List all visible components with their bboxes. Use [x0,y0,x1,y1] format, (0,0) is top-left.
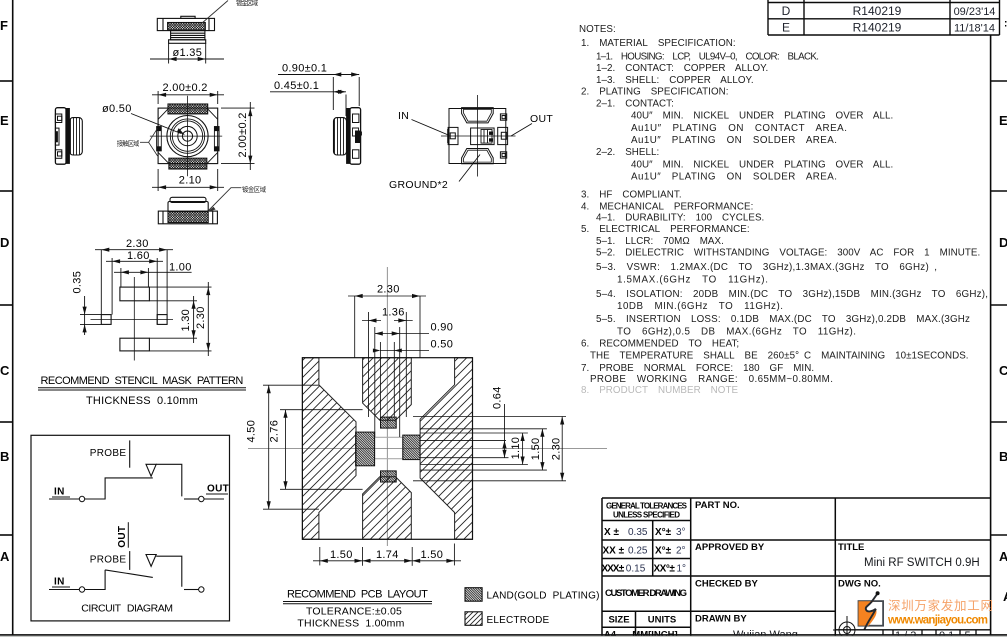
svg-text:RECOMMEND STENCIL MASK PATTERN: RECOMMEND STENCIL MASK PATTERN [41,375,244,387]
svg-text:A: A [999,549,1007,564]
svg-text:E: E [0,113,9,128]
svg-text:TO 6GHz),0.5 DB MAX.(6GHz: TO 6GHz),0.5 DB MAX.(6GHz TO 11GHz). [617,327,856,338]
svg-text:0.64: 0.64 [492,386,504,409]
node IN terminal (bottom) [79,587,84,592]
svg-text:2.00±0.2: 2.00±0.2 [237,112,249,157]
svg-text:5–2. DIELECTRIC WITHSTANDING: 5–2. DIELECTRIC WITHSTANDING VOLTAGE: 30… [596,248,980,259]
centerlines [150,96,222,176]
bottom partial row of title block (cut off) [835,630,990,637]
svg-text:4. MECHANICAL PERFORMANCE:: 4. MECHANICAL PERFORMANCE: [581,202,753,213]
svg-text:0.50: 0.50 [431,338,454,350]
svg-text:0.35: 0.35 [628,527,648,538]
svg-text:1.5MAX.(6GHz TO 11GHz).: 1.5MAX.(6GHz TO 11GHz). [617,275,768,286]
svg-text:2.30: 2.30 [195,306,207,329]
svg-text:40U″ MIN. NICKEL UNDER PLA: 40U″ MIN. NICKEL UNDER PLATING OVER ALL. [631,160,893,171]
svg-text:10DB MIN.(6GHz TO 11GHz).: 10DB MIN.(6GHz TO 11GHz). [617,301,783,312]
svg-text:1.10: 1.10 [510,437,522,460]
svg-text:11/18'14: 11/18'14 [954,23,995,35]
svg-text:2. PLATING SPECIFICATION:: 2. PLATING SPECIFICATION: [581,87,729,98]
wire to OUT node (bottom) [184,589,199,591]
svg-text:镀金区域: 镀金区域 [242,184,267,193]
svg-text:5–5. INSERTION LOSS: 0.1DB: 5–5. INSERTION LOSS: 0.1DB MAX.(DC TO 3G… [596,314,970,325]
svg-text:5–3. VSWR: 1.2MAX.(DC TO 3: 5–3. VSWR: 1.2MAX.(DC TO 3GHz),1.3MAX.(3… [596,262,937,273]
svg-text:PROBE WORKING RANGE: 0.65MM: PROBE WORKING RANGE: 0.65MM~0.80MM. [590,374,833,385]
view: connector bottom view (terminals) [389,95,553,191]
wire IN riser (bottom) [85,570,105,590]
dim 0.90 [270,75,359,117]
svg-text:B: B [0,449,9,464]
logo [859,591,994,630]
svg-text:A: A [0,549,10,564]
svg-text:深圳万家发加工网: 深圳万家发加工网 [888,598,993,613]
dim 2.30 top [95,250,173,315]
svg-text:1°: 1° [677,564,687,575]
svg-text:APPROVED BY: APPROVED BY [695,542,765,553]
dim d1.35 [150,43,224,63]
svg-text:DRAWN BY: DRAWN BY [695,614,747,625]
svg-text:ELECTRODE: ELECTRODE [487,615,550,626]
svg-text:THE TEMPERATURE SHALL BE 2: THE TEMPERATURE SHALL BE 260±5° C MAINTA… [590,351,969,362]
switch arm S2 (open) [105,570,153,578]
svg-text:3°: 3° [676,527,686,538]
svg-text:7. PROBE NORMAL FORCE: 180: 7. PROBE NORMAL FORCE: 180 GF MIN. [581,363,814,374]
registration crosshair [833,616,861,637]
svg-text:OUT: OUT [207,484,229,495]
dim 2.30 right [149,282,211,356]
svg-text:D: D [782,4,791,18]
dim 2.10 bottom [152,169,224,191]
dim 0.35 [80,296,101,335]
svg-text:1–1. HOUSING: LCP, UL94V–0,: 1–1. HOUSING: LCP, UL94V–0, COLOR: BLACK… [596,51,819,62]
svg-text:C: C [999,363,1007,378]
svg-text:RECOMMEND PCB LAYOUT: RECOMMEND PCB LAYOUT [287,589,428,601]
svg-text:Au1U″ PLATING ON SOLDER AR: Au1U″ PLATING ON SOLDER AREA. [631,135,837,146]
svg-text:Au1U″ PLATING ON CONTACT A: Au1U″ PLATING ON CONTACT AREA. [631,123,847,134]
svg-text:R140219: R140219 [853,21,902,35]
svg-text:R140219: R140219 [853,4,902,18]
svg-text:1.30: 1.30 [180,309,192,332]
svg-text:2–2. SHELL:: 2–2. SHELL: [596,147,659,158]
svg-text:Au1U″ PLATING ON SOLDER AR: Au1U″ PLATING ON SOLDER AREA. [631,172,837,183]
dim 2.00 right [221,102,255,170]
svg-text:THICKNESS 0.10mm: THICKNESS 0.10mm [86,395,198,407]
dim 1.60 [106,258,163,324]
wire IN lead (top) [49,498,79,500]
svg-text:www.wanjiayou.com: www.wanjiayou.com [887,615,988,627]
PCB layout [246,267,608,630]
svg-text:09/23'14: 09/23'14 [954,6,996,18]
svg-text:ø0.50: ø0.50 [102,103,132,115]
center contact [471,128,495,145]
circuit diagram border box [31,435,230,621]
svg-text:1.50: 1.50 [330,549,353,561]
svg-text:0.15: 0.15 [626,564,646,575]
svg-text:GROUND*2: GROUND*2 [389,179,448,191]
svg-text:A: A [1003,589,1007,604]
view: connector top side view [150,0,259,64]
svg-text:CIRCUIT DIAGRAM: CIRCUIT DIAGRAM [81,603,173,615]
left dims [263,385,363,509]
svg-text:CUSTOMER DRAWING: CUSTOMER DRAWING [605,588,687,599]
switch contact triangle S2 [146,555,156,567]
svg-text:2°: 2° [676,546,686,557]
svg-text:2.30: 2.30 [550,438,562,461]
svg-text:XXX: XXX [602,564,620,575]
bottom dims [313,544,461,566]
svg-text:E: E [782,21,790,35]
corner squares [500,114,506,120]
view: connector bottom side view [158,184,266,223]
svg-text:DWG NO.: DWG NO. [838,579,881,590]
svg-text:C: C [0,363,10,378]
svg-text:OUT: OUT [117,526,128,548]
svg-text:5–4. ISOLATION: 20DB MIN.(D: 5–4. ISOLATION: 20DB MIN.(DC TO 3GHz),15… [596,289,988,300]
svg-text:E: E [999,113,1007,128]
svg-text:2–1. CONTACT:: 2–1. CONTACT: [596,99,674,110]
svg-text:40U″ MIN. NICKEL UNDER PLA: 40U″ MIN. NICKEL UNDER PLATING OVER ALL. [631,111,893,122]
svg-text:6. RECOMMENDED TO HEAT;: 6. RECOMMENDED TO HEAT; [581,339,739,350]
svg-text:B: B [999,449,1007,464]
svg-text:1.36: 1.36 [382,307,405,319]
dim 1.30 [149,296,197,343]
svg-text:PROBE: PROBE [90,555,127,566]
view: connector right side view [270,63,362,165]
svg-text:OUT: OUT [530,113,553,125]
svg-text:8. PRODUCT NUMBER NOTE: 8. PRODUCT NUMBER NOTE [581,385,738,396]
svg-text:1. MATERIAL SPECIFICATION:: 1. MATERIAL SPECIFICATION: [581,38,736,49]
revision table [762,0,1005,35]
svg-text:D: D [0,235,9,250]
svg-text:4.50: 4.50 [246,420,258,443]
ground pad bottom [462,149,494,164]
svg-text:1.60: 1.60 [127,250,150,262]
bottom scan strip [0,636,1007,637]
svg-text:IN: IN [54,487,65,498]
land pads [356,417,420,482]
svg-text:LAND(GOLD PLATING): LAND(GOLD PLATING) [487,591,600,602]
wire IN lead (bottom) [49,589,79,591]
svg-text:PROBE: PROBE [90,448,127,459]
svg-text:1–2. CONTACT: COPPER ALLOY.: 1–2. CONTACT: COPPER ALLOY. [596,63,768,74]
electrode regions [302,358,472,540]
svg-text:0.45±0.1: 0.45±0.1 [274,80,319,92]
svg-text:Mini RF SWITCH 0.9H: Mini RF SWITCH 0.9H [864,557,980,569]
svg-text:5–1. LLCR: 70MΩ MAX.: 5–1. LLCR: 70MΩ MAX. [596,236,724,247]
svg-text:1.00: 1.00 [169,262,192,274]
svg-text:±: ± [619,564,625,575]
outer square [302,358,472,540]
svg-text:PART NO.: PART NO. [695,500,740,511]
node OUT terminal (top) [199,496,204,501]
stencil mask pattern [38,238,246,407]
node IN terminal (top) [79,496,84,501]
dim 2.00 top [152,91,224,104]
centerlines [248,267,607,546]
svg-text:SIZE: SIZE [608,615,629,626]
svg-text:CHECKED BY: CHECKED BY [695,579,758,590]
svg-text:2.76: 2.76 [268,420,280,443]
svg-text:XX ±: XX ± [603,546,625,557]
svg-text:4–1. DURABILITY: 100 CYCLES: 4–1. DURABILITY: 100 CYCLES. [596,213,764,224]
wire to OUT node (top) [184,498,199,500]
svg-text:1–3. SHELL: COPPER ALLOY.: 1–3. SHELL: COPPER ALLOY. [596,75,754,86]
svg-text:X ±: X ± [604,527,619,538]
probe actuator line S1 [129,440,131,467]
svg-text:0.25: 0.25 [628,546,648,557]
svg-text:5. ELECTRICAL PERFORMANCE:: 5. ELECTRICAL PERFORMANCE: [581,224,750,235]
svg-text:接触区域: 接触区域 [117,139,140,148]
svg-text:X°±: X°± [655,527,672,538]
svg-text:0.90: 0.90 [431,322,454,334]
dim 1.00 [114,268,192,287]
title block [602,498,991,637]
notes [579,24,988,396]
central rect [375,437,403,458]
svg-text:IN: IN [398,110,409,122]
svg-text:IN: IN [54,577,65,588]
svg-text:1.50: 1.50 [421,549,444,561]
circuit diagram [31,435,230,621]
OUT terminal [498,127,508,144]
svg-text:2.00±0.2: 2.00±0.2 [163,82,208,94]
switch contact triangle S1 [146,464,156,476]
probe actuator line S2 [129,551,131,570]
node OUT terminal (bottom) [199,587,204,592]
svg-text:1.74: 1.74 [376,549,399,561]
svg-text:ø1.35: ø1.35 [173,47,203,59]
IN terminal [448,127,458,144]
svg-text:2.30: 2.30 [126,238,149,250]
svg-text:3. HF COMPLIANT.: 3. HF COMPLIANT. [581,190,682,201]
svg-text:1.50: 1.50 [530,438,542,461]
view: connector left side view [55,108,82,165]
ground pad top [462,108,494,123]
wire switch to OUT (top) [156,464,182,496]
svg-text:0.90±0.1: 0.90±0.1 [282,63,327,75]
svg-text:X°±: X°± [655,546,672,557]
svg-text:0.35: 0.35 [72,271,84,294]
svg-text:镀金区域: 镀金区域 [236,0,259,7]
svg-text:GENERAL TOLERANCES: GENERAL TOLERANCES [606,502,688,511]
svg-text:TOLERANCE:±0.05: TOLERANCE:±0.05 [306,606,402,618]
svg-text:2.10: 2.10 [179,175,202,187]
wire OUT lead (top) [204,498,224,500]
svg-text:D: D [999,235,1007,250]
svg-text:UNITS: UNITS [648,615,677,626]
svg-text:F: F [0,18,8,33]
wire IN to switch arm S1 [85,478,153,499]
svg-text:THICKNESS 1.00mm: THICKNESS 1.00mm [297,618,404,630]
top dims [348,296,429,437]
svg-text:XX°±: XX°± [654,564,676,575]
svg-text:2.30: 2.30 [377,284,400,296]
svg-text:NOTES:: NOTES: [579,24,616,35]
svg-text:UNLESS SPECIFIED: UNLESS SPECIFIED [613,511,680,520]
view: connector front view [102,82,255,191]
right dims [413,404,566,481]
leader to plating label [199,1,228,26]
wire switch to OUT (bottom) [156,556,182,587]
legend [465,588,600,626]
svg-text:TITLE: TITLE [838,542,864,553]
